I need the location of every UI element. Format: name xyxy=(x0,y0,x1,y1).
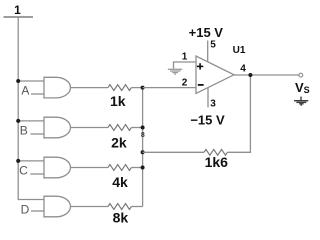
resistor 2k xyxy=(108,125,131,131)
junction dot at gate A tap xyxy=(16,79,20,83)
svg-text:8k: 8k xyxy=(113,210,129,226)
AND gate (input D) xyxy=(44,196,71,217)
svg-text:C: C xyxy=(19,164,28,178)
svg-text:U1: U1 xyxy=(233,45,246,56)
junction dot bus row C xyxy=(141,166,145,170)
svg-text:1k6: 1k6 xyxy=(205,154,229,170)
wire: 4k to bus xyxy=(131,167,142,169)
svg-text:1: 1 xyxy=(182,52,188,63)
wire: left vertical bus from terminal 1 xyxy=(18,17,44,200)
wire: 2k to bus xyxy=(131,127,142,129)
input terminal bar (logic 1) xyxy=(4,16,34,18)
wire: 1k to bus xyxy=(131,87,142,89)
ground at Vs xyxy=(294,97,308,106)
AND gate (input C) xyxy=(44,157,71,178)
svg-text:B: B xyxy=(20,123,28,137)
wire: gate C output xyxy=(71,167,109,169)
op-amp minus input marker xyxy=(198,84,204,86)
resistor 8k xyxy=(108,204,131,210)
resistor 1k xyxy=(108,85,131,91)
junction dot bus row B xyxy=(141,126,145,130)
svg-text:2k: 2k xyxy=(111,135,127,151)
output terminal circle xyxy=(299,73,303,77)
junction dot at gate B tap xyxy=(16,119,20,123)
svg-text:A: A xyxy=(21,84,29,98)
junction dot bus feedback row xyxy=(141,150,145,154)
svg-text:D: D xyxy=(21,203,30,217)
junction dot bus row A xyxy=(141,86,145,90)
wire: input C to gate xyxy=(31,173,45,175)
wire: gate B output xyxy=(71,127,109,129)
wire: input B to gate xyxy=(31,133,45,135)
wire: input D to gate xyxy=(31,210,44,212)
wire: gate B top input xyxy=(18,120,44,122)
svg-text:1k: 1k xyxy=(110,93,126,109)
svg-text:+15 V: +15 V xyxy=(189,25,224,40)
wire: gate A output xyxy=(71,87,109,89)
op-amp plus input marker xyxy=(197,63,203,69)
wire: pin 1 non-inverting input xyxy=(174,62,197,69)
svg-text:4k: 4k xyxy=(112,174,128,190)
svg-text:−15 V: −15 V xyxy=(190,112,225,127)
wire: gate A top input xyxy=(18,80,44,82)
svg-text:8: 8 xyxy=(141,132,145,139)
wire: 8k to bus xyxy=(131,206,142,208)
AND gate (input A) xyxy=(44,77,70,98)
junction dot at gate C tap xyxy=(16,159,20,163)
junction dot output/feedback xyxy=(248,73,252,77)
wire: input A to gate xyxy=(31,93,44,95)
svg-text:3: 3 xyxy=(210,99,216,110)
op-amp U1 triangle xyxy=(196,56,234,94)
pin 5 supply lead xyxy=(207,41,209,62)
wire: gate D output xyxy=(71,206,109,208)
svg-text:1: 1 xyxy=(14,3,21,17)
AND gate (input B) xyxy=(44,117,71,138)
pin 3 supply lead xyxy=(207,88,209,107)
svg-text:2: 2 xyxy=(182,78,188,89)
svg-text:4: 4 xyxy=(240,64,246,75)
wire: gate C top input xyxy=(18,160,44,162)
wire: bus to op-amp inverting input xyxy=(143,87,196,89)
svg-text:5: 5 xyxy=(210,40,216,51)
ground at pin 1 xyxy=(168,69,182,74)
wire: feedback bottom run xyxy=(143,151,204,153)
wire: feedback right side up to output xyxy=(227,75,250,152)
resistor 1k6 xyxy=(204,149,227,155)
wire: summing bus vertical xyxy=(142,88,144,207)
wire: op-amp output xyxy=(234,74,299,76)
resistor 4k xyxy=(108,165,131,171)
